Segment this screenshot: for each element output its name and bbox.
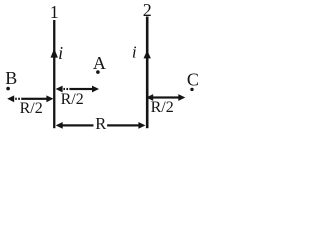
svg-text:B: B xyxy=(5,68,17,88)
svg-text:A: A xyxy=(93,53,106,73)
svg-text:1: 1 xyxy=(50,2,59,22)
svg-text:R/2: R/2 xyxy=(151,99,174,116)
svg-text:R/2: R/2 xyxy=(20,100,43,117)
svg-text:i: i xyxy=(58,43,63,63)
svg-text:C: C xyxy=(187,70,199,90)
svg-text:i: i xyxy=(132,43,137,62)
svg-text:2: 2 xyxy=(143,0,152,20)
svg-text:R/2: R/2 xyxy=(61,91,84,108)
svg-text:R: R xyxy=(95,114,106,133)
